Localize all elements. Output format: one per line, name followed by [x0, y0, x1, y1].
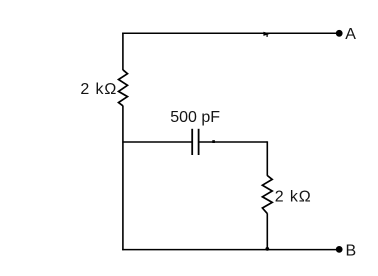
junction dot right branch to bottom rail [265, 247, 269, 251]
wire top horizontal A-rail [122, 32, 336, 34]
wire right vertical upper segment [266, 141, 268, 176]
svg-text:2 kΩ: 2 kΩ [80, 81, 117, 98]
svg-text:A: A [345, 26, 356, 43]
svg-text:B: B [346, 242, 357, 259]
junction tick on middle wire [212, 140, 215, 143]
terminal node B dot [336, 246, 343, 253]
wire middle horizontal left of capacitor [122, 141, 192, 143]
wire middle horizontal right of capacitor [199, 141, 268, 143]
wire right vertical lower segment [266, 213, 268, 249]
wire bottom horizontal B-rail [122, 249, 336, 251]
svg-text:500 pF: 500 pF [170, 109, 220, 126]
wire left vertical lower segment [122, 106, 124, 251]
svg-text:2 kΩ: 2 kΩ [275, 188, 312, 205]
resistor R1 2 kOhm (left) [119, 70, 128, 106]
capacitor C1 left plate [191, 129, 193, 155]
resistor R2 2 kOhm (right) [262, 176, 272, 214]
wire left vertical upper segment [122, 33, 124, 70]
capacitor C1 right plate [198, 129, 200, 155]
current arrow on top wire [263, 32, 270, 37]
terminal node A dot [336, 30, 343, 37]
